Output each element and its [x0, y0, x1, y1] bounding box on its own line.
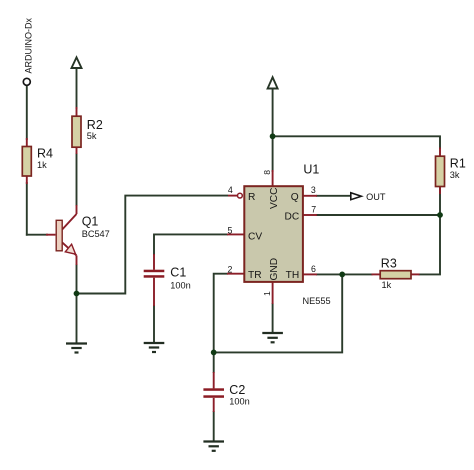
svg-text:1k: 1k — [37, 160, 47, 170]
svg-text:R2: R2 — [87, 118, 103, 132]
svg-text:C1: C1 — [170, 266, 186, 280]
svg-text:U1: U1 — [303, 162, 319, 176]
svg-text:8: 8 — [262, 170, 272, 175]
svg-text:R1: R1 — [450, 157, 466, 171]
svg-text:C2: C2 — [229, 383, 245, 397]
svg-text:DC: DC — [284, 212, 299, 223]
svg-text:Q: Q — [291, 192, 299, 203]
svg-text:BC547: BC547 — [82, 229, 110, 239]
svg-text:100n: 100n — [229, 396, 249, 406]
svg-text:TR: TR — [248, 270, 262, 281]
svg-text:5: 5 — [228, 225, 233, 235]
svg-text:R: R — [248, 192, 255, 203]
svg-text:ARDUINO-Dx: ARDUINO-Dx — [23, 18, 33, 74]
svg-text:OUT: OUT — [366, 192, 386, 202]
svg-text:3: 3 — [311, 185, 316, 195]
svg-text:NE555: NE555 — [303, 296, 331, 306]
svg-text:VCC: VCC — [269, 187, 280, 209]
svg-text:Q1: Q1 — [82, 214, 99, 228]
svg-text:2: 2 — [228, 265, 233, 275]
svg-text:CV: CV — [248, 231, 262, 242]
svg-text:100n: 100n — [170, 280, 190, 290]
svg-text:R3: R3 — [381, 257, 397, 271]
svg-text:4: 4 — [228, 185, 233, 195]
svg-text:1k: 1k — [382, 280, 392, 290]
svg-text:GND: GND — [269, 258, 280, 281]
svg-text:5k: 5k — [87, 131, 97, 141]
svg-text:6: 6 — [311, 264, 316, 274]
svg-text:7: 7 — [311, 205, 316, 215]
svg-text:1: 1 — [262, 291, 272, 296]
svg-text:3k: 3k — [450, 170, 460, 180]
svg-text:R4: R4 — [37, 147, 53, 161]
svg-text:TH: TH — [286, 270, 300, 281]
